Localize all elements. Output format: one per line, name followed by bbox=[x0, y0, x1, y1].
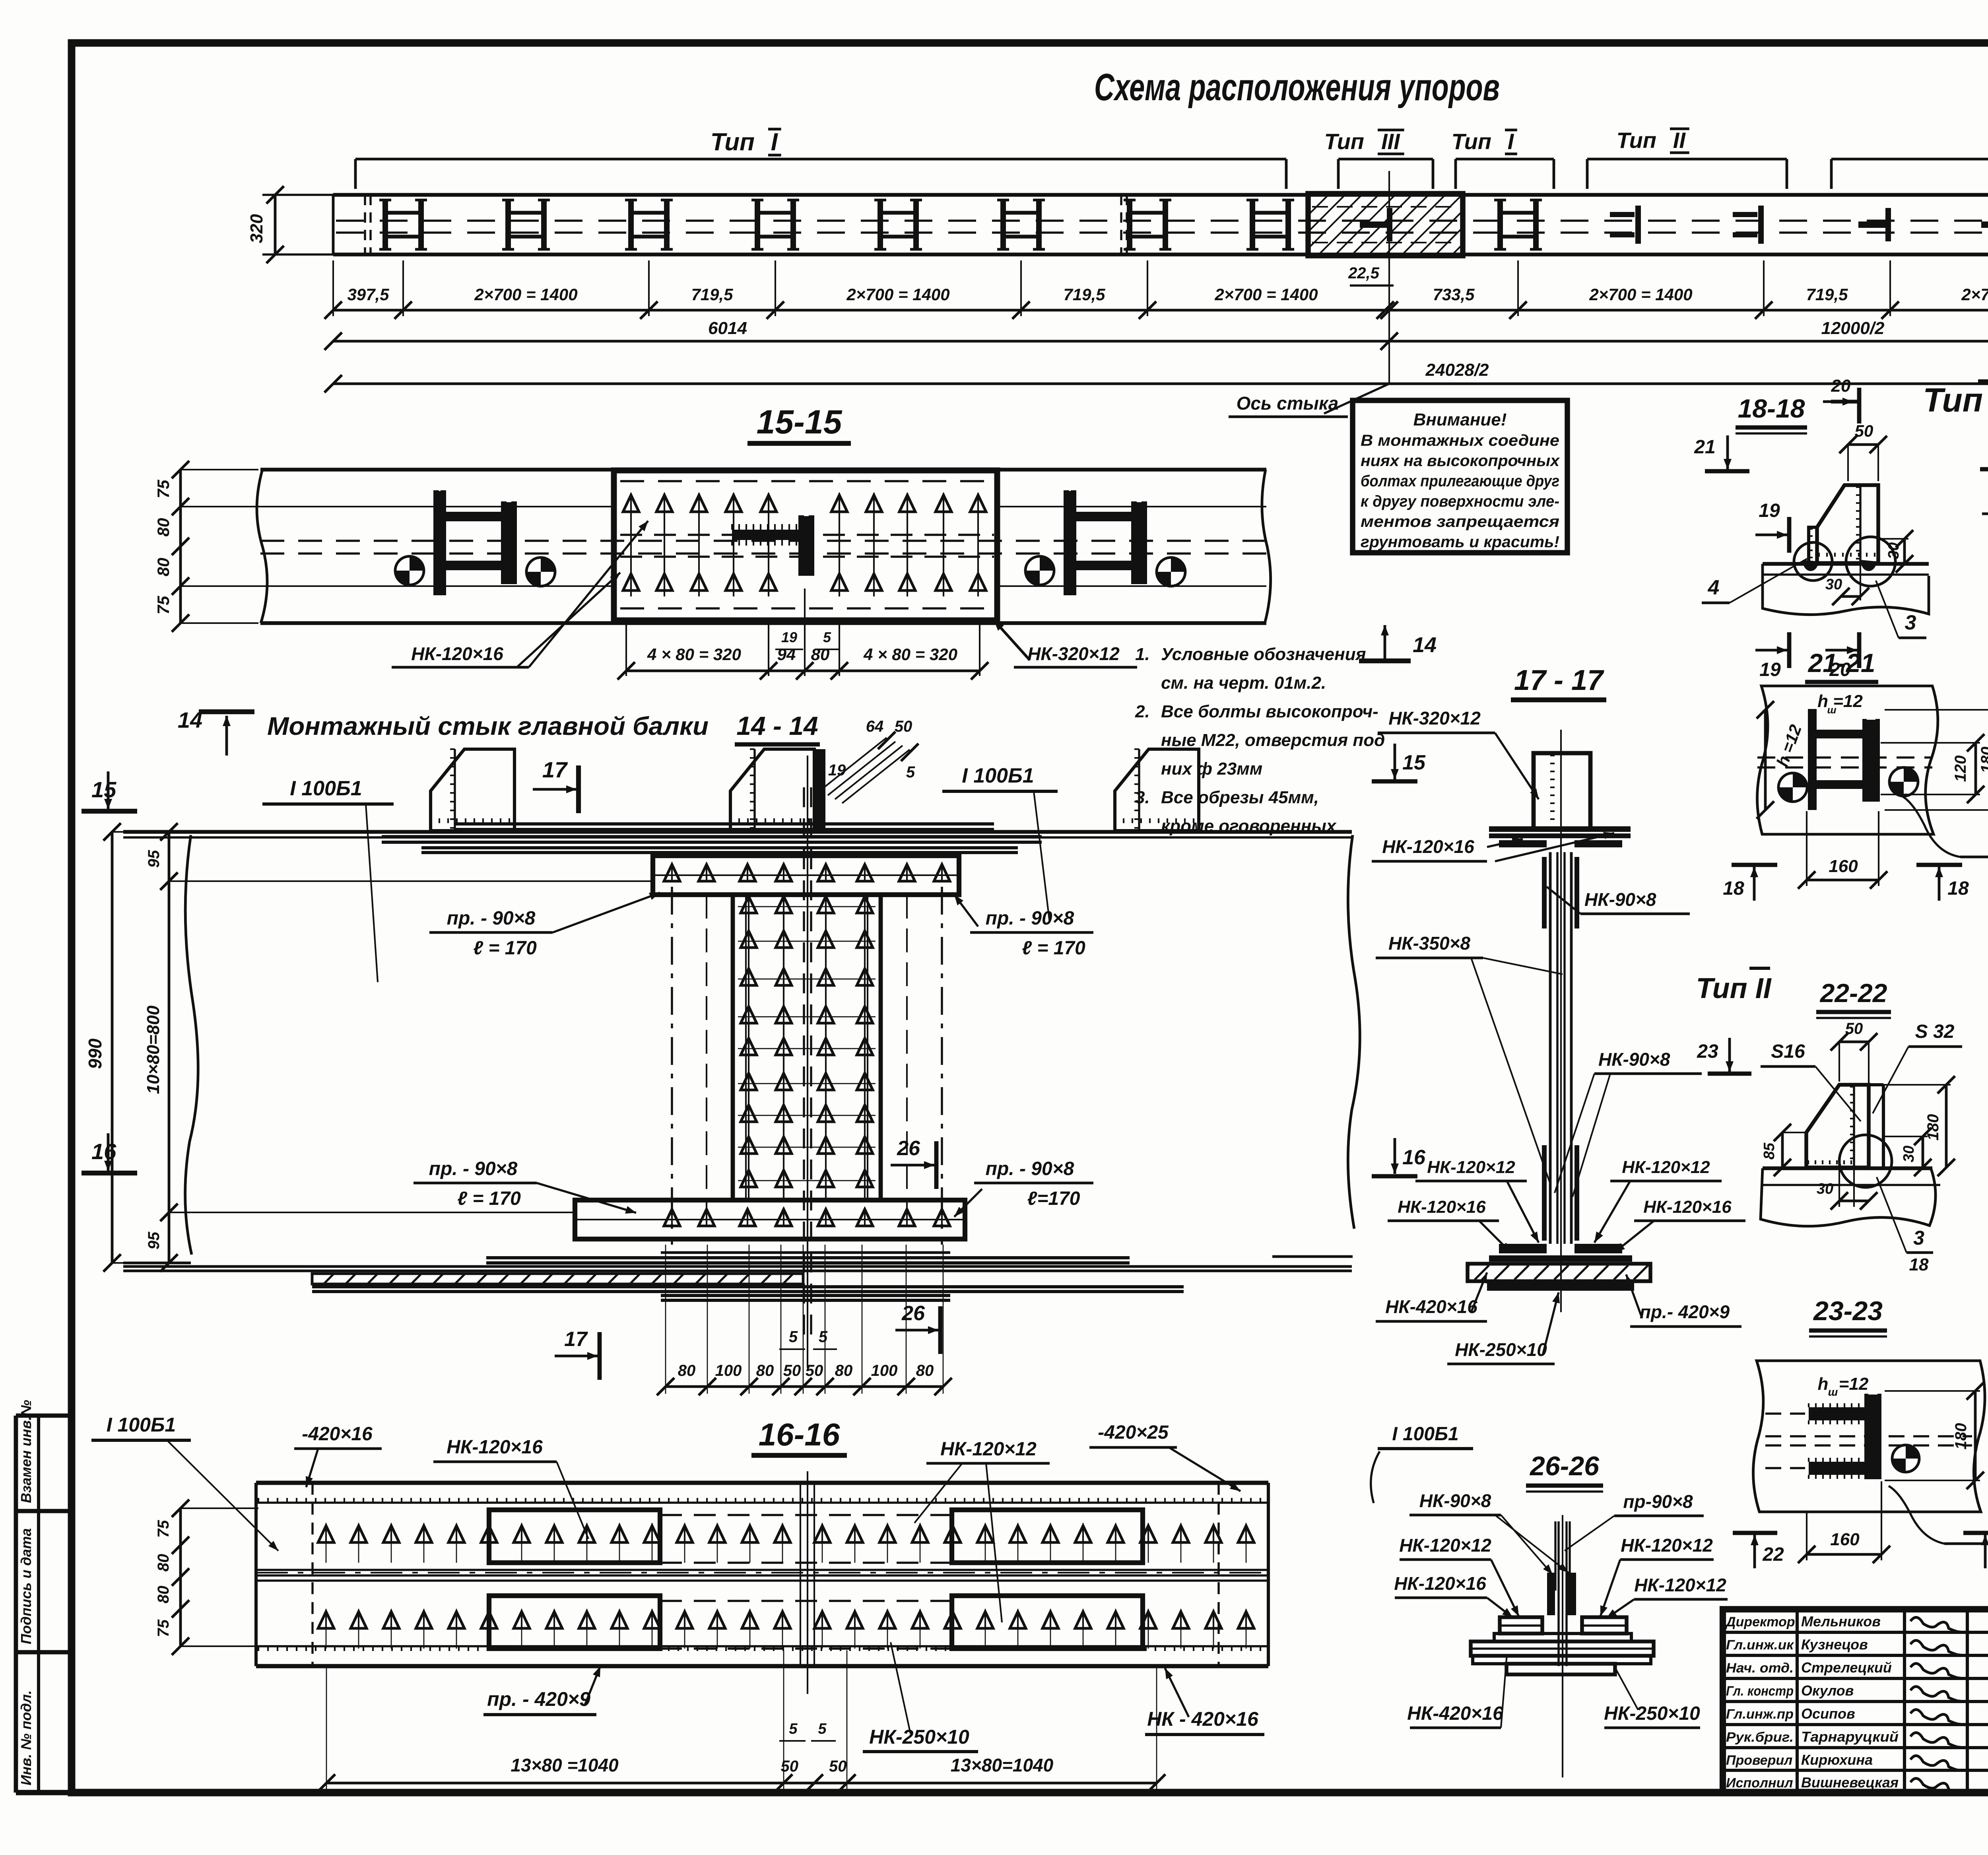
label НК-120x16 (16-16) bbox=[433, 1437, 588, 1539]
svg-text:НК-320×12: НК-320×12 bbox=[1388, 708, 1481, 728]
svg-text:Исполнил: Исполнил bbox=[1726, 1775, 1793, 1791]
svg-text:НК-250×10: НК-250×10 bbox=[1455, 1339, 1547, 1360]
dim 180 (21-21) bbox=[1885, 701, 1988, 819]
svg-text:94: 94 bbox=[777, 645, 796, 664]
svg-text:6014: 6014 bbox=[708, 319, 747, 338]
svg-text:ниях на высокопрочных: ниях на высокопрочных bbox=[1361, 452, 1560, 470]
svg-text:3.: 3. bbox=[1135, 788, 1150, 807]
svg-text:17 - 17: 17 - 17 bbox=[1514, 664, 1604, 696]
svg-text:4 × 80 = 320: 4 × 80 = 320 bbox=[863, 645, 957, 664]
svg-text:120: 120 bbox=[1952, 756, 1969, 782]
label пр-90x8 (26-26) bbox=[1565, 1491, 1704, 1551]
svg-text:1.: 1. bbox=[1135, 645, 1150, 664]
svg-text:80: 80 bbox=[756, 1362, 774, 1379]
flange plate stack (26-26) bbox=[1471, 1617, 1654, 1674]
stop gusset side view (18-18) bbox=[1809, 485, 1878, 563]
svg-text:Тип: Тип bbox=[1324, 129, 1365, 154]
dims 75-80-80-75 (16-16 left) bbox=[155, 1500, 258, 1655]
label НК-250x10 (26-26) bbox=[1604, 1666, 1700, 1728]
bolt triangles rows (16-16) bbox=[318, 1523, 1254, 1649]
dim 120 (21-21) bbox=[1881, 734, 1984, 803]
svg-text:Условные обозначения: Условные обозначения bbox=[1161, 645, 1366, 664]
label НК-120x12 (16-16) bbox=[914, 1439, 1050, 1622]
svg-text:397,5: 397,5 bbox=[347, 285, 389, 304]
svg-text:Тарнаруцкий: Тарнаруцкий bbox=[1801, 1729, 1899, 1745]
label пр.-90x8 bottom-left bbox=[414, 1158, 636, 1214]
label I 100Б1 (right) bbox=[942, 764, 1058, 923]
svg-text:НК - 420×16: НК - 420×16 bbox=[1147, 1708, 1259, 1730]
svg-text:Инв. № подл.: Инв. № подл. bbox=[18, 1690, 34, 1785]
svg-text:18: 18 bbox=[1723, 878, 1744, 899]
svg-text:S 32: S 32 bbox=[1915, 1021, 1955, 1042]
svg-text:2×700 = 1400: 2×700 = 1400 bbox=[1214, 285, 1318, 304]
svg-text:-420×25: -420×25 bbox=[1098, 1422, 1169, 1443]
section title 15-15 bbox=[747, 403, 851, 443]
svg-text:ℓ = 170: ℓ = 170 bbox=[473, 938, 537, 959]
svg-text:80: 80 bbox=[155, 1586, 172, 1604]
label НК-420x16 (17-17) bbox=[1376, 1272, 1487, 1321]
svg-text:80: 80 bbox=[154, 558, 173, 577]
flange wavy (22-22) bbox=[1761, 1168, 1940, 1226]
label НК-90x8 lower (17-17) bbox=[1555, 1049, 1702, 1197]
label НК-250x10 (17-17) bbox=[1447, 1292, 1560, 1364]
svg-text:85: 85 bbox=[1761, 1142, 1778, 1160]
label S16 (19-19) bbox=[1982, 488, 1988, 553]
girder bar section 15-15 bbox=[257, 470, 1271, 623]
warning note box (Внимание!) bbox=[1353, 400, 1567, 553]
svg-text:13×80=1040: 13×80=1040 bbox=[951, 1755, 1054, 1775]
svg-text:30: 30 bbox=[1885, 542, 1902, 559]
stiffener gusset 1 (14-14) bbox=[431, 749, 514, 831]
svg-text:719,5: 719,5 bbox=[1806, 285, 1848, 304]
svg-text:h =12: h =12 bbox=[1817, 691, 1863, 711]
dim 180 (22-22) bbox=[1870, 1076, 1955, 1176]
svg-text:НК-320×12: НК-320×12 bbox=[1027, 643, 1120, 664]
svg-text:80: 80 bbox=[811, 645, 830, 664]
dim 30 bottom (18-18) bbox=[1825, 564, 1869, 605]
svg-text:50: 50 bbox=[829, 1758, 847, 1775]
svg-text:I 100Б1: I 100Б1 bbox=[1392, 1424, 1458, 1445]
label -420x25 (16-16) bbox=[1089, 1422, 1241, 1491]
svg-text:19: 19 bbox=[1759, 659, 1781, 680]
svg-text:Нач. отд.: Нач. отд. bbox=[1726, 1661, 1794, 1676]
label Тип II bbox=[1696, 968, 1772, 1004]
stop stud plan left (15-15) bbox=[395, 491, 555, 595]
svg-text:990: 990 bbox=[85, 1038, 105, 1069]
svg-text:В монтажных соедине: В монтажных соедине bbox=[1361, 432, 1559, 449]
dim 5-5 (14-14 bottom) bbox=[779, 1328, 837, 1349]
svg-text:4: 4 bbox=[1708, 576, 1720, 599]
bracket Тип II bbox=[1587, 128, 1787, 189]
label пр.-90x8 top-right bbox=[954, 895, 1093, 959]
svg-text:3: 3 bbox=[1913, 1227, 1924, 1249]
callout 3-18 (22-22) bbox=[1877, 1177, 1933, 1274]
marker 19 (18-18) bbox=[1755, 500, 1789, 553]
svg-text:23: 23 bbox=[1697, 1041, 1718, 1062]
svg-text:пр. - 90×8: пр. - 90×8 bbox=[986, 1158, 1074, 1179]
svg-text:Гл. констр: Гл. констр bbox=[1726, 1684, 1794, 1699]
label НК-420x16 (16-16) bbox=[1145, 1668, 1264, 1735]
svg-text:НК-90×8: НК-90×8 bbox=[1419, 1490, 1491, 1511]
section title 18-18 bbox=[1736, 394, 1807, 433]
svg-text:I: I bbox=[1508, 129, 1514, 154]
sheet title bbox=[1094, 66, 1500, 109]
svg-text:26: 26 bbox=[897, 1137, 920, 1160]
svg-text:80: 80 bbox=[678, 1362, 696, 1379]
svg-text:18: 18 bbox=[1947, 878, 1969, 899]
stop gusset side view (22-22) bbox=[1806, 1085, 1883, 1167]
svg-text:15: 15 bbox=[1402, 751, 1426, 774]
svg-text:50: 50 bbox=[895, 718, 912, 735]
svg-text:пр-90×8: пр-90×8 bbox=[1623, 1491, 1693, 1512]
section marker 17 (top) bbox=[533, 757, 579, 813]
svg-text:ℓ = 170: ℓ = 170 bbox=[1022, 938, 1085, 959]
svg-text:80: 80 bbox=[916, 1362, 934, 1379]
svg-text:2×700 = 1400: 2×700 = 1400 bbox=[1589, 285, 1692, 304]
svg-text:50: 50 bbox=[1845, 1020, 1863, 1037]
svg-text:НК-120×12: НК-120×12 bbox=[1622, 1158, 1710, 1177]
svg-text:Директор: Директор bbox=[1725, 1614, 1795, 1630]
svg-text:НК-250×10: НК-250×10 bbox=[869, 1726, 969, 1748]
svg-text:ℓ=170: ℓ=170 bbox=[1027, 1188, 1080, 1209]
svg-text:17: 17 bbox=[564, 1328, 588, 1351]
left dim line (21-21) bbox=[1757, 701, 1774, 819]
label НК-120x12 right (17-17) bbox=[1594, 1158, 1722, 1243]
svg-text:50: 50 bbox=[1855, 422, 1873, 440]
svg-text:Тип II: Тип II bbox=[1696, 973, 1772, 1004]
dims 4x80=320 / 94 / 80 (15-15) bbox=[617, 589, 988, 680]
svg-text:26-26: 26-26 bbox=[1529, 1451, 1600, 1481]
marker 18 right (21-21) bbox=[1916, 865, 1969, 901]
label НК-120x16 right lower (17-17) bbox=[1614, 1197, 1745, 1253]
dim 85 (22-22) bbox=[1761, 1124, 1807, 1176]
svg-text:Подпись и дата: Подпись и дата bbox=[18, 1528, 34, 1644]
web plates (26-26) bbox=[1555, 1515, 1570, 1777]
stud plan (21-21) bbox=[1757, 710, 1932, 810]
svg-text:пр. - 420×9: пр. - 420×9 bbox=[487, 1688, 590, 1710]
top flange cover plates (14-14) bbox=[382, 824, 1042, 853]
label Тип I (big) bbox=[1923, 381, 1988, 419]
svg-text:22,5: 22,5 bbox=[1348, 264, 1380, 282]
svg-text:21-21: 21-21 bbox=[1807, 648, 1875, 678]
svg-text:19: 19 bbox=[1759, 500, 1780, 521]
label НК-250x10 (16-16) bbox=[863, 1642, 978, 1752]
svg-text:грунтовать и красить!: грунтовать и красить! bbox=[1361, 533, 1559, 551]
label НК-120×16 (15-15) bbox=[392, 521, 648, 667]
svg-text:Схема расположения упоров: Схема расположения упоров bbox=[1094, 66, 1500, 109]
svg-text:26: 26 bbox=[901, 1302, 925, 1325]
cover plates outlines (16-16) bbox=[489, 1510, 1143, 1649]
svg-text:Окулов: Окулов bbox=[1801, 1682, 1854, 1699]
svg-text:16: 16 bbox=[91, 1139, 116, 1164]
svg-text:17: 17 bbox=[542, 757, 568, 782]
top web splice plate пр.-90x8 (14-14) bbox=[653, 856, 959, 895]
label пр.-420x9 (16-16) bbox=[483, 1666, 600, 1715]
svg-text:13×80 =1040: 13×80 =1040 bbox=[511, 1755, 619, 1775]
label пр.-420x9 (17-17) bbox=[1626, 1274, 1741, 1327]
svg-text:НК-250×10: НК-250×10 bbox=[1604, 1703, 1700, 1724]
section marker 26 (lower) bbox=[895, 1302, 940, 1354]
svg-text:ш: ш bbox=[1828, 1386, 1838, 1398]
svg-text:Мельников: Мельников bbox=[1801, 1613, 1881, 1630]
svg-text:75: 75 bbox=[155, 1520, 172, 1538]
marker 21 left (18-18) bbox=[1694, 435, 1749, 471]
label НК-120x12 left (17-17) bbox=[1415, 1158, 1539, 1243]
svg-text:23-23: 23-23 bbox=[1813, 1296, 1883, 1326]
girder bar section 16-16 bbox=[256, 1483, 1268, 1666]
svg-text:Стрелецкий: Стрелецкий bbox=[1801, 1659, 1892, 1676]
svg-text:95: 95 bbox=[145, 850, 163, 868]
label НК-120x12 right2 (26-26) bbox=[1606, 1575, 1728, 1618]
svg-text:НК-120×16: НК-120×16 bbox=[1394, 1573, 1486, 1594]
svg-text:5: 5 bbox=[818, 1721, 827, 1737]
label I 100Б1 (left) bbox=[262, 777, 394, 982]
svg-text:I: I bbox=[771, 128, 779, 156]
stiffener gusset 2 with dims (14-14) bbox=[730, 718, 918, 831]
view title 14-14 bbox=[267, 711, 820, 744]
dim 50 (22-22) bbox=[1831, 1020, 1877, 1085]
svg-text:них ф 23мм: них ф 23мм bbox=[1161, 759, 1262, 779]
label НК-120x12 right (26-26) bbox=[1600, 1535, 1714, 1616]
svg-text:НК-120×16: НК-120×16 bbox=[1398, 1197, 1486, 1217]
vertical web splice plates (14-14) bbox=[733, 756, 881, 1368]
svg-text:НК-120×16: НК-120×16 bbox=[1382, 836, 1474, 857]
svg-text:НК-120×12: НК-120×12 bbox=[1621, 1535, 1713, 1556]
label I 100Б1 (26-26 top) bbox=[1371, 1424, 1473, 1503]
svg-text:21: 21 bbox=[1694, 437, 1715, 458]
svg-text:100: 100 bbox=[715, 1362, 742, 1379]
bolt grid in web splice (14-14) bbox=[738, 895, 876, 1200]
section title 16-16 bbox=[751, 1417, 847, 1455]
svg-text:Гл.инж.пр: Гл.инж.пр bbox=[1726, 1707, 1794, 1722]
label S32 (22-22) bbox=[1873, 1021, 1962, 1113]
svg-text:ные М22, отверстия под: ные М22, отверстия под bbox=[1161, 730, 1385, 750]
dimension row 6014 / 12000-2 bbox=[324, 319, 1988, 350]
marker 19 bottom (18-18) bbox=[1755, 632, 1789, 680]
bolt triangles in 15-15 splice bbox=[623, 493, 986, 596]
svg-text:пр. - 90×8: пр. - 90×8 bbox=[429, 1158, 518, 1179]
stop stud at splice axis bbox=[1360, 208, 1392, 241]
document stamp column (left margin cells) bbox=[16, 1400, 72, 1793]
label НК-320x12 (17-17) bbox=[1378, 708, 1539, 799]
svg-text:160: 160 bbox=[1830, 1530, 1860, 1549]
marker 20 (top of 18-18) bbox=[1823, 376, 1861, 423]
svg-text:Все болты высокопроч-: Все болты высокопроч- bbox=[1161, 702, 1378, 721]
label S16 (22-22) bbox=[1761, 1041, 1861, 1121]
svg-text:НК-90×8: НК-90×8 bbox=[1584, 889, 1656, 910]
svg-text:пр.- 420×9: пр.- 420×9 bbox=[1640, 1301, 1730, 1322]
label НК-90x8 upper (17-17) bbox=[1547, 887, 1690, 914]
splice zone box (15-15) bbox=[614, 470, 997, 620]
section marker 16 (14-14 left) bbox=[82, 1133, 137, 1173]
svg-text:22-22: 22-22 bbox=[1819, 978, 1887, 1008]
marker 20 bottom (18-18) bbox=[1825, 632, 1859, 680]
plan outline (23-23) bbox=[1753, 1361, 1985, 1512]
dim 160 (21-21) bbox=[1798, 811, 1887, 889]
svg-text:19: 19 bbox=[781, 629, 797, 645]
stiffener gusset 3 (14-14) bbox=[1115, 749, 1199, 831]
section marker 14 (right) bbox=[1359, 625, 1437, 661]
dimension chain (stud spacing) bbox=[324, 260, 1988, 319]
svg-text:719,5: 719,5 bbox=[691, 285, 733, 304]
dimension row 24028-2 bbox=[324, 360, 1988, 392]
section marker 14 (left) bbox=[178, 707, 254, 756]
svg-text:НК-120×16: НК-120×16 bbox=[411, 643, 503, 664]
svg-text:64: 64 bbox=[866, 718, 884, 735]
splice plates НК-90x8 (26-26) bbox=[1547, 1573, 1576, 1615]
general notes list bbox=[1135, 645, 1385, 836]
svg-text:Ось стыка: Ось стыка bbox=[1237, 393, 1339, 414]
svg-text:II: II bbox=[1673, 128, 1686, 153]
svg-text:Внимание!: Внимание! bbox=[1413, 410, 1507, 429]
label НК-350x8 (17-17) bbox=[1376, 933, 1563, 1185]
svg-text:к другу поверхности эле-: к другу поверхности эле- bbox=[1361, 493, 1559, 510]
svg-text:Все обрезы 45мм,: Все обрезы 45мм, bbox=[1161, 788, 1319, 807]
svg-text:16: 16 bbox=[1402, 1146, 1426, 1169]
bracket Тип I (second) bbox=[1452, 129, 1554, 189]
label НК-120x16 (26-26) bbox=[1394, 1573, 1513, 1618]
svg-text:30: 30 bbox=[1817, 1181, 1833, 1197]
svg-text:30: 30 bbox=[1825, 576, 1842, 593]
dim 50 (18-18) bbox=[1839, 422, 1887, 481]
marker 22 left (23-23) bbox=[1733, 1533, 1784, 1568]
dim 180 (23-23) bbox=[1885, 1382, 1984, 1489]
callout 4 (18-18) bbox=[1702, 559, 1807, 603]
dim 30 right (22-22) bbox=[1885, 1128, 1932, 1176]
svg-text:14: 14 bbox=[178, 707, 202, 732]
label -420x16 (16-16) bbox=[294, 1424, 382, 1487]
top flange plates НК-120x16 (17-17) bbox=[1489, 826, 1631, 847]
svg-text:h: h bbox=[1818, 1374, 1829, 1394]
stop studs type I (H symbols) on schematic bbox=[379, 200, 1542, 249]
girder elevation 14-14 (top flange line) bbox=[123, 832, 1360, 1263]
label пр.-90x8 bottom-right bbox=[954, 1158, 1093, 1217]
svg-text:50: 50 bbox=[783, 1362, 801, 1379]
section title 26-26 bbox=[1526, 1451, 1603, 1492]
svg-text:НК-120×12: НК-120×12 bbox=[1634, 1575, 1726, 1595]
svg-text:80: 80 bbox=[154, 518, 173, 537]
svg-text:НК-90×8: НК-90×8 bbox=[1598, 1049, 1670, 1070]
splice axis label (Ось стыка) bbox=[1229, 171, 1389, 417]
svg-text:5: 5 bbox=[819, 1328, 828, 1346]
stud plan (23-23) bbox=[1765, 1395, 1972, 1479]
web and splice plates НК-350x8 НК-90x8 (17-17) bbox=[1542, 852, 1579, 1244]
svg-text:-420×16: -420×16 bbox=[302, 1424, 373, 1445]
svg-text:18: 18 bbox=[1909, 1255, 1929, 1274]
bottom flange plates (17-17) bbox=[1455, 1244, 1650, 1291]
marker 18 left (21-21) bbox=[1723, 865, 1777, 901]
label Полный провар (21-21) bbox=[1901, 795, 1988, 857]
vertical dims 990 / 10x80=800 / 95 (14-14) bbox=[85, 823, 652, 1272]
bracket Тип I (left span) bbox=[355, 128, 1286, 189]
svg-text:НК-120×12: НК-120×12 bbox=[1399, 1535, 1491, 1556]
svg-text:75: 75 bbox=[154, 480, 173, 498]
section marker 17 (bottom) bbox=[555, 1328, 600, 1380]
svg-text:30: 30 bbox=[1901, 1146, 1917, 1162]
label НК-420x16 (26-26) bbox=[1407, 1654, 1507, 1728]
section marker 15 (17-17) bbox=[1372, 744, 1426, 781]
svg-text:Тип: Тип bbox=[711, 128, 755, 156]
svg-text:320: 320 bbox=[247, 214, 266, 243]
bottom web splice plate пр.-90x8 (14-14) bbox=[575, 1200, 965, 1239]
svg-text:I 100Б1: I 100Б1 bbox=[107, 1414, 176, 1436]
svg-text:2×700 = 1400: 2×700 = 1400 bbox=[846, 285, 949, 304]
svg-text:50: 50 bbox=[806, 1362, 823, 1379]
girder splice zone (hatched box) bbox=[1253, 194, 1511, 256]
stop stud plan right (15-15) bbox=[1025, 491, 1185, 595]
flange under gusset (18-18) bbox=[1763, 564, 1929, 615]
svg-text:НК-120×12: НК-120×12 bbox=[940, 1439, 1037, 1460]
label hш=12 left (21-21) bbox=[1773, 722, 1805, 769]
svg-text:180: 180 bbox=[1978, 747, 1988, 773]
svg-text:15-15: 15-15 bbox=[757, 403, 843, 441]
svg-text:20: 20 bbox=[1831, 376, 1851, 396]
label НК-120x16 (17-17) bbox=[1372, 832, 1614, 861]
label hш=12 (23-23) bbox=[1818, 1374, 1869, 1398]
dim 30 bottom (22-22) bbox=[1817, 1169, 1877, 1210]
svg-text:S16: S16 bbox=[1771, 1041, 1805, 1062]
dims 75-80-80-75 (15-15 left) bbox=[154, 461, 262, 632]
svg-text:НК-420×16: НК-420×16 bbox=[1407, 1703, 1503, 1724]
section marker 16 (17-17) bbox=[1372, 1138, 1426, 1176]
svg-text:719,5: 719,5 bbox=[1063, 285, 1105, 304]
svg-text:НК-350×8: НК-350×8 bbox=[1388, 933, 1470, 954]
central stop stud (15-15 plan) bbox=[732, 516, 814, 576]
centreline 17-17 bbox=[1560, 730, 1562, 1312]
svg-text:2×700 = 1400: 2×700 = 1400 bbox=[1961, 285, 1988, 304]
label НК-120x12 left (26-26) bbox=[1399, 1535, 1519, 1616]
marker 21 right (18-18) bbox=[1980, 433, 1988, 469]
stop stud top (17-17) bbox=[1534, 753, 1590, 829]
svg-text:=12: =12 bbox=[1839, 1374, 1869, 1394]
svg-text:180: 180 bbox=[1952, 1423, 1970, 1450]
svg-text:14: 14 bbox=[1413, 633, 1437, 657]
svg-text:Кирюхина: Кирюхина bbox=[1801, 1752, 1873, 1768]
svg-text:Кузнецов: Кузнецов bbox=[1801, 1636, 1868, 1653]
svg-text:I 100Б1: I 100Б1 bbox=[290, 777, 362, 800]
svg-text:95: 95 bbox=[145, 1231, 163, 1249]
svg-text:15: 15 bbox=[91, 777, 116, 802]
svg-text:733,5: 733,5 bbox=[1433, 285, 1475, 304]
label пр.-90x8 top-left bbox=[429, 893, 660, 959]
svg-text:Вишневецкая: Вишневецкая bbox=[1801, 1774, 1899, 1791]
section title 23-23 bbox=[1809, 1296, 1887, 1336]
dim 30 right (18-18) bbox=[1878, 530, 1913, 573]
svg-text:2.: 2. bbox=[1135, 702, 1150, 721]
plan outline (21-21) bbox=[1757, 686, 1938, 834]
svg-text:14 - 14: 14 - 14 bbox=[736, 711, 818, 740]
weld circle (22-22) bbox=[1839, 1135, 1892, 1187]
svg-text:12000/2: 12000/2 bbox=[1821, 319, 1885, 338]
svg-text:5: 5 bbox=[906, 763, 915, 781]
svg-text:5: 5 bbox=[789, 1721, 798, 1737]
svg-text:пр. - 90×8: пр. - 90×8 bbox=[986, 908, 1074, 929]
svg-text:НК-120×16: НК-120×16 bbox=[1643, 1197, 1732, 1217]
svg-text:5: 5 bbox=[789, 1328, 798, 1346]
label НК-120x16 left lower (17-17) bbox=[1388, 1197, 1511, 1253]
svg-text:80: 80 bbox=[835, 1362, 853, 1379]
svg-text:Осипов: Осипов bbox=[1801, 1705, 1855, 1722]
bolt column centrelines (14-14) bbox=[672, 887, 942, 1245]
svg-text:4 × 80 = 320: 4 × 80 = 320 bbox=[647, 645, 741, 664]
svg-text:3: 3 bbox=[1905, 611, 1916, 634]
svg-text:Рук.бриг.: Рук.бриг. bbox=[1726, 1730, 1794, 1745]
dim chain 13x80=1040 (16-16) bbox=[318, 1650, 1165, 1792]
dim 320 (bar height) bbox=[247, 186, 336, 263]
svg-text:100: 100 bbox=[871, 1362, 898, 1379]
section marker 26 (upper) bbox=[891, 1137, 936, 1189]
bracket Тип III (splice zone) bbox=[1324, 129, 1433, 189]
